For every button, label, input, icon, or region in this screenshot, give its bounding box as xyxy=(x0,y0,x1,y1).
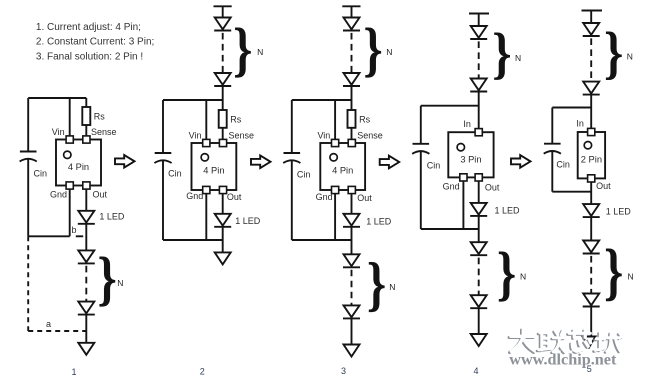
svg-text:Rs: Rs xyxy=(230,115,241,125)
svg-text:Rs: Rs xyxy=(94,112,105,122)
svg-text:2. Constant Current: 3 Pin;: 2. Constant Current: 3 Pin; xyxy=(36,37,154,48)
wire D5 to ground (circuit 4) xyxy=(478,308,480,334)
svg-text:1 LED: 1 LED xyxy=(606,207,632,217)
ground (circuit 5) xyxy=(583,337,596,348)
supply terminal (circuit 5) xyxy=(582,10,603,12)
LED D4 (circuit 5) xyxy=(583,241,600,254)
brace N top (circuit 3) xyxy=(363,15,382,82)
brace N top (circuit 2) xyxy=(233,15,252,82)
capacitor Cin (circuit 1) xyxy=(20,98,37,236)
svg-text:3. Fanal solution: 2 Pin !: 3. Fanal solution: 2 Pin ! xyxy=(36,51,143,62)
svg-text:1: 1 xyxy=(72,367,77,377)
svg-text:4 Pin: 4 Pin xyxy=(203,165,224,175)
wire bottom return (circuit 3) xyxy=(292,239,352,241)
svg-text:b: b xyxy=(72,225,77,235)
watermark url xyxy=(509,347,617,368)
top wire to Cin (circuit 4) xyxy=(421,105,479,107)
svg-text:1 LED: 1 LED xyxy=(99,211,125,221)
wire D2 to In pin (circuit 4) xyxy=(478,92,480,129)
wire Out to LED (circuit 5) xyxy=(590,182,592,204)
LED D1 top (circuit 5) xyxy=(583,23,600,36)
svg-text:1 LED: 1 LED xyxy=(366,217,392,227)
svg-text:4: 4 xyxy=(474,366,479,376)
svg-text:Cin: Cin xyxy=(168,169,182,179)
LED D2 top (circuit 4) xyxy=(470,79,487,92)
wire terminal to LED (circuit 4) xyxy=(478,14,480,27)
LED D4 (circuit 4) xyxy=(470,242,487,255)
svg-text:4 Pin: 4 Pin xyxy=(332,165,353,175)
svg-text:N: N xyxy=(257,47,263,57)
wire terminal to LED (circuit 3) xyxy=(351,6,353,17)
LED D3 out (circuit 2) xyxy=(214,214,231,227)
svg-text:N: N xyxy=(515,53,521,63)
svg-text:N: N xyxy=(627,51,633,61)
ground (circuit 4) xyxy=(471,334,487,346)
resistor Rs (circuit 2) xyxy=(219,110,227,128)
wire Gnd pin down (circuit 3) xyxy=(334,194,336,240)
ground (circuit 1) xyxy=(78,343,94,355)
wire dashed D2-D3 (circuit 1) xyxy=(85,266,87,302)
capacitor Cin (circuit 3) xyxy=(283,100,300,240)
watermark 大联芯城 xyxy=(509,329,622,353)
svg-text:}: } xyxy=(367,250,386,317)
wire LED to string (circuit 4) xyxy=(478,216,480,242)
wire Vin riser (circuit 3) xyxy=(334,100,336,139)
brace N top (circuit 4) xyxy=(492,23,511,85)
svg-text:Vin: Vin xyxy=(189,131,202,141)
wire LED to string (circuit 5) xyxy=(590,217,592,240)
wire dashed top string (circuit 4) xyxy=(478,41,480,78)
wire LED to ground (circuit 2) xyxy=(222,227,224,253)
resistor Rs (circuit 1) xyxy=(82,107,90,125)
brace N top (circuit 5) xyxy=(604,20,623,85)
svg-text:N: N xyxy=(628,271,634,281)
block arrow 1-2 xyxy=(115,155,135,168)
svg-text:Gnd: Gnd xyxy=(50,190,67,200)
svg-text:}: } xyxy=(492,23,511,85)
circuit 1 top supply wire xyxy=(28,97,86,99)
LED D2 top (circuit 2) xyxy=(214,73,231,86)
brace N bottom (circuit 3) xyxy=(367,250,386,317)
wire D2 to Rs (circuit 2) xyxy=(222,86,224,110)
LED D2 top (circuit 5) xyxy=(583,82,600,95)
svg-text:1 LED: 1 LED xyxy=(495,206,521,216)
supply terminal (circuit 3) xyxy=(342,5,360,7)
wire D2 to In pin (circuit 5) xyxy=(590,95,592,129)
svg-text:}: } xyxy=(98,245,117,312)
svg-text:3 Pin: 3 Pin xyxy=(460,155,481,165)
capacitor Cin (circuit 4) xyxy=(412,106,429,229)
wire Out to LED (circuit 4) xyxy=(478,181,480,203)
LED D1 (circuit 1) xyxy=(78,211,95,224)
svg-text:In: In xyxy=(463,119,471,129)
wire dashed top string (circuit 2) xyxy=(222,33,224,73)
supply terminal (circuit 4) xyxy=(469,13,489,15)
wire dashed b-link (circuit 1) xyxy=(76,235,83,237)
brace N bottom (circuit 5) xyxy=(604,237,623,308)
svg-text:Sense: Sense xyxy=(91,127,117,137)
svg-text:Vin: Vin xyxy=(52,127,65,137)
svg-text:}: } xyxy=(604,20,623,85)
LED D5 (circuit 3) xyxy=(343,305,360,318)
top wire to Cin (circuit 5) xyxy=(552,107,591,109)
op-amp regulator U2 4-Pin (circuit 2) xyxy=(192,139,237,193)
wire dashed a-link (circuit 1) xyxy=(28,330,86,332)
supply terminal (circuit 2) xyxy=(214,5,232,7)
wire D2 to Rs (circuit 3) xyxy=(351,86,353,110)
block arrow 2-3 xyxy=(251,156,271,169)
brace N (circuit 1) xyxy=(98,245,117,312)
svg-text:Vin: Vin xyxy=(317,131,330,141)
wire dashed left drop (circuit 1) xyxy=(27,236,29,331)
svg-text:www.dlchip.net: www.dlchip.net xyxy=(509,351,617,369)
svg-text:}: } xyxy=(233,15,252,82)
wire D5 to ground (circuit 5) xyxy=(590,307,592,337)
svg-text:Gnd: Gnd xyxy=(316,192,333,202)
svg-text:Cin: Cin xyxy=(297,169,311,179)
svg-text:2 Pin: 2 Pin xyxy=(581,154,602,164)
wire Rs to Sense pin (circuit 1) xyxy=(85,125,87,136)
svg-text:Cin: Cin xyxy=(34,168,48,178)
svg-text:N: N xyxy=(520,271,526,281)
svg-text:}: } xyxy=(363,15,382,82)
wire Rs to Sense (circuit 3) xyxy=(351,128,353,140)
brace N bottom (circuit 4) xyxy=(497,239,516,306)
op-amp regulator U1 4-Pin (circuit 1) xyxy=(56,136,101,189)
svg-text:1. Current adjust: 4 Pin;: 1. Current adjust: 4 Pin; xyxy=(36,22,141,33)
svg-text:4 Pin: 4 Pin xyxy=(68,162,89,172)
svg-text:1 LED: 1 LED xyxy=(235,216,261,226)
regulator U5 2-Pin (circuit 5) xyxy=(578,128,605,182)
svg-text:Cin: Cin xyxy=(556,160,570,170)
wire D1 to D2 (circuit 1) xyxy=(85,224,87,251)
wire bottom return (circuit 5) xyxy=(552,191,591,193)
op-amp regulator U3 4-Pin (circuit 3) xyxy=(320,139,365,193)
wire top to Rs (circuit 1) xyxy=(85,98,87,107)
svg-text:Gnd: Gnd xyxy=(443,182,460,192)
LED D3 out (circuit 4) xyxy=(470,203,487,216)
wire Out to LED (circuit 2) xyxy=(222,194,224,214)
wire bottom return (circuit 1) xyxy=(28,235,69,237)
LED D2 top (circuit 3) xyxy=(343,73,360,86)
top wire to Cin (circuit 2) xyxy=(163,99,223,101)
LED D3 out (circuit 5) xyxy=(583,204,600,217)
wire D5 to ground (circuit 3) xyxy=(351,318,353,344)
wire dashed bottom string (circuit 5) xyxy=(590,256,592,294)
wire Vin riser (circuit 1) xyxy=(69,98,71,136)
LED D5 (circuit 5) xyxy=(583,294,600,307)
block arrow 4-5 xyxy=(511,155,531,168)
capacitor Cin (circuit 2) xyxy=(154,100,171,240)
wire terminal to LED (circuit 2) xyxy=(222,6,224,17)
svg-text:Out: Out xyxy=(93,190,108,200)
svg-text:Out: Out xyxy=(357,193,372,203)
wire Rs to Sense (circuit 2) xyxy=(222,128,224,140)
regulator U4 3-Pin (circuit 4) xyxy=(448,129,493,181)
ground (circuit 2) xyxy=(215,252,231,264)
LED D1 top (circuit 4) xyxy=(470,26,487,39)
capacitor Cin (circuit 5) xyxy=(544,108,561,192)
wire Gnd pin down (circuit 4) xyxy=(462,181,464,229)
svg-text:N: N xyxy=(389,282,395,292)
svg-text:Gnd: Gnd xyxy=(186,191,203,201)
wire bottom return (circuit 4) xyxy=(421,228,479,230)
wire dashed top string (circuit 3) xyxy=(351,33,353,73)
wire Out to LED (circuit 3) xyxy=(351,194,353,214)
svg-text:Out: Out xyxy=(596,181,611,191)
svg-text:5: 5 xyxy=(587,364,592,374)
LED D3 out (circuit 3) xyxy=(343,214,360,227)
svg-text:In: In xyxy=(576,119,584,129)
LED D1 top (circuit 3) xyxy=(343,18,360,31)
svg-text:Rs: Rs xyxy=(359,115,370,125)
wire Vin riser (circuit 2) xyxy=(205,100,207,139)
LED D1 top (circuit 2) xyxy=(214,18,231,31)
wire D3 to ground (circuit 1) xyxy=(85,315,87,343)
wire bottom return (circuit 2) xyxy=(163,239,223,241)
top wire to Cin (circuit 3) xyxy=(292,99,352,101)
svg-text:a: a xyxy=(46,319,51,329)
LED D5 (circuit 4) xyxy=(470,295,487,308)
resistor Rs (circuit 3) xyxy=(348,110,356,128)
svg-text:Out: Out xyxy=(485,183,500,193)
wire dashed bottom string (circuit 3) xyxy=(351,270,353,306)
svg-text:}: } xyxy=(604,237,623,308)
block arrow 3-4 xyxy=(380,156,400,169)
wire Gnd pin down (circuit 1) xyxy=(69,189,71,236)
svg-text:Cin: Cin xyxy=(427,160,441,170)
svg-text:3: 3 xyxy=(341,366,346,376)
wire dashed bottom string (circuit 4) xyxy=(478,258,480,296)
LED D4 (circuit 3) xyxy=(343,254,360,267)
svg-text:2: 2 xyxy=(200,367,205,377)
wire Out to LED (circuit 1) xyxy=(85,189,87,211)
LED D2 (circuit 1) xyxy=(78,250,95,263)
svg-text:N: N xyxy=(386,47,392,57)
svg-text:}: } xyxy=(497,239,516,306)
svg-text:N: N xyxy=(117,278,123,288)
svg-text:Sense: Sense xyxy=(357,131,383,141)
ground (circuit 3) xyxy=(344,345,360,357)
wire dashed top string (circuit 5) xyxy=(590,38,592,81)
wire LED to string (circuit 3) xyxy=(351,227,353,255)
LED D3 (circuit 1) xyxy=(78,302,95,315)
svg-text:Out: Out xyxy=(227,192,242,202)
wire Gnd pin down (circuit 2) xyxy=(205,194,207,240)
wire terminal to LED (circuit 5) xyxy=(590,11,592,24)
svg-text:Sense: Sense xyxy=(229,131,255,141)
